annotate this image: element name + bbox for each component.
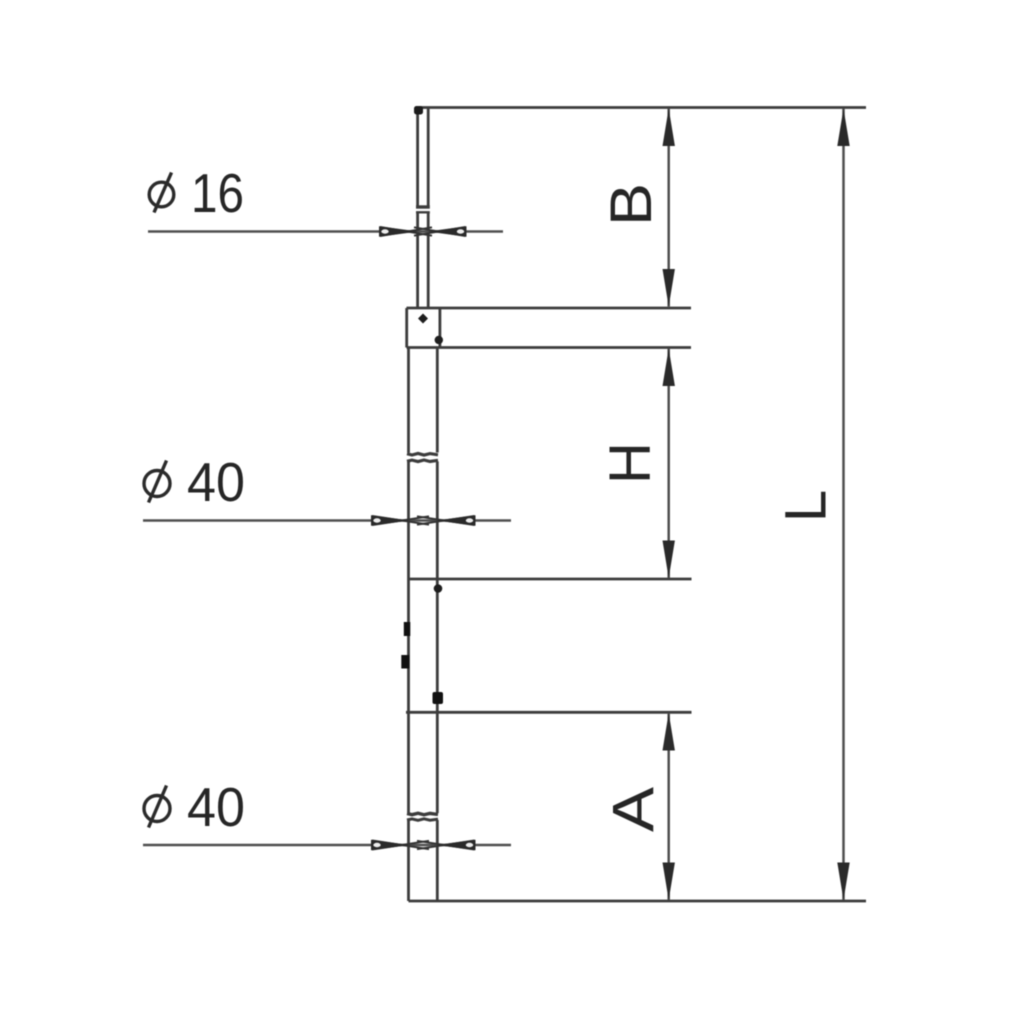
wire top extension line [417,106,866,109]
collar bottom line / extension line H top [407,346,692,349]
break line upper (first break) [407,453,438,455]
joint line / extension line H bottom [409,578,692,581]
tube Ø16 lower segment right edge [427,212,430,308]
collar right-edge dot [435,336,443,344]
main tube section2 right edge [436,462,439,814]
Ø40 upper left arrow [371,515,429,525]
tube Ø16 upper segment right edge [427,108,430,207]
leader line Ø16 [148,230,503,233]
L bottom arrow [837,863,849,901]
square dot above A-top joint on right edge [433,692,444,704]
arrowheads [371,109,850,901]
A bottom arrow [663,863,675,901]
B top arrow [663,109,675,147]
leader line Ø40 upper [143,519,511,522]
bottom line / extension line for A and L [409,900,867,903]
svg-text:H: H [598,442,663,484]
collar top line / extension line B bottom [407,307,692,310]
B bottom arrow [663,269,675,307]
break line lower (first break) [407,460,438,462]
dimension line B [667,109,670,307]
main tube section1 right edge [436,348,439,453]
main tube section2 left edge [407,462,410,814]
joint line / extension line A top [406,711,692,714]
H top arrow [663,349,675,387]
clamp block 2 on left edge [401,655,409,669]
diameter symbol for Ø40 upper [144,461,170,503]
svg-text:B: B [599,183,664,226]
Ø40 lower right arrow [417,840,476,850]
Ø16 right arrow [414,226,467,236]
dimension line A [667,713,670,900]
svg-text:40: 40 [187,451,245,513]
tube Ø16 upper segment left edge [416,108,419,207]
svg-text:L: L [774,490,839,522]
diameter symbol for Ø40 lower [144,786,170,828]
svg-text:16: 16 [191,162,244,224]
break line upper (second break) [407,813,438,815]
collar right edge [438,308,441,348]
svg-text:A: A [602,787,667,832]
dimension line L [842,109,845,901]
Ø40 lower left arrow [371,840,429,850]
collar diamond dot [418,314,428,324]
tube Ø16 lower segment left edge [416,212,419,308]
tube Ø16 joint lower cap line [416,211,430,213]
clamp block 1 on left edge [404,622,411,636]
break line lower (second break) [407,819,438,821]
weld blob at mast top corner [414,106,423,115]
Ø16 left arrow [379,226,432,236]
L top arrow [837,109,849,147]
Ø40 upper right arrow [417,515,476,525]
H bottom arrow [663,541,675,579]
collar left edge [405,308,408,348]
bottom tube section right edge [436,820,439,901]
bottom tube section left edge [407,820,410,901]
dimension line H [667,349,670,579]
A top arrow [663,713,675,751]
main tube section1 left edge [407,348,410,453]
svg-text:40: 40 [187,776,245,838]
dot below H-bottom joint on right edge [434,584,443,593]
diameter symbol for Ø16 [149,173,174,213]
tube Ø16 joint cap line [416,205,430,208]
leader line Ø40 lower [143,844,511,847]
